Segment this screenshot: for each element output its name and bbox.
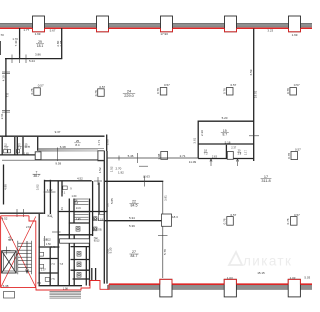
svg-text:2.61: 2.61 <box>0 113 4 119</box>
svg-text:18.3: 18.3 <box>172 215 178 219</box>
svg-text:0.78: 0.78 <box>223 218 227 224</box>
svg-text:0.57: 0.57 <box>38 84 44 88</box>
svg-text:18.1: 18.1 <box>37 44 44 48</box>
svg-text:0.57: 0.57 <box>295 148 301 152</box>
svg-text:0.78: 0.78 <box>156 88 160 94</box>
svg-text:0.78: 0.78 <box>94 90 98 96</box>
svg-text:КЦ: КЦ <box>48 214 53 218</box>
svg-text:3.08: 3.08 <box>106 139 110 145</box>
svg-text:4.98: 4.98 <box>3 184 7 190</box>
svg-text:0.78: 0.78 <box>286 218 290 224</box>
svg-text:7.0: 7.0 <box>6 93 10 98</box>
svg-text:0.57: 0.57 <box>294 213 300 217</box>
svg-text:3.23: 3.23 <box>267 28 273 32</box>
svg-text:1.82: 1.82 <box>47 188 53 192</box>
svg-text:5.39: 5.39 <box>129 224 135 228</box>
svg-text:ликатк: ликатк <box>243 254 292 269</box>
svg-text:19.01: 19.01 <box>254 90 258 98</box>
svg-text:7.3: 7.3 <box>51 263 55 266</box>
svg-text:5.24: 5.24 <box>29 59 35 63</box>
svg-text:1.69: 1.69 <box>35 32 41 36</box>
svg-text:0.57: 0.57 <box>99 85 105 89</box>
svg-text:5.34: 5.34 <box>129 216 135 220</box>
svg-text:0.78: 0.78 <box>30 88 34 94</box>
svg-text:9.37: 9.37 <box>55 130 61 134</box>
svg-text:0.78: 0.78 <box>223 88 227 94</box>
svg-text:0.8: 0.8 <box>75 202 79 205</box>
svg-text:5.13: 5.13 <box>107 248 110 253</box>
svg-text:17.90: 17.90 <box>160 32 168 36</box>
svg-text:1.52: 1.52 <box>110 166 114 172</box>
svg-text:1.70: 1.70 <box>0 33 4 37</box>
svg-text:10.6: 10.6 <box>8 238 14 242</box>
svg-text:8.4: 8.4 <box>75 143 80 147</box>
svg-text:1.98: 1.98 <box>63 288 68 291</box>
svg-text:1.03: 1.03 <box>290 276 296 280</box>
svg-text:0.78: 0.78 <box>287 153 291 159</box>
svg-text:1.17: 1.17 <box>243 149 247 155</box>
svg-text:1.89: 1.89 <box>43 239 48 242</box>
svg-text:6.38: 6.38 <box>60 145 66 149</box>
svg-text:1.77: 1.77 <box>23 28 29 32</box>
svg-text:5.46: 5.46 <box>128 154 134 158</box>
svg-text:4.10: 4.10 <box>2 75 6 81</box>
svg-text:2.63: 2.63 <box>212 155 218 159</box>
svg-text:5.67: 5.67 <box>50 28 56 32</box>
svg-text:15.15: 15.15 <box>257 271 265 275</box>
svg-text:5.78: 5.78 <box>163 249 167 255</box>
svg-text:9013: 9013 <box>94 240 100 243</box>
svg-text:14.9: 14.9 <box>76 207 81 210</box>
svg-text:21.6: 21.6 <box>25 145 31 149</box>
svg-text:5.38: 5.38 <box>3 284 9 288</box>
svg-text:5.18: 5.18 <box>225 140 231 144</box>
svg-text:3.08: 3.08 <box>157 153 161 159</box>
svg-text:0.78: 0.78 <box>286 88 290 94</box>
svg-text:5.85: 5.85 <box>110 198 114 204</box>
svg-text:7.2: 7.2 <box>204 151 208 155</box>
svg-text:1.65: 1.65 <box>24 151 30 155</box>
svg-text:2.71: 2.71 <box>180 154 186 158</box>
svg-text:1.19: 1.19 <box>98 219 103 222</box>
svg-text:6.59: 6.59 <box>249 69 253 75</box>
svg-text:2.6: 2.6 <box>4 145 8 149</box>
svg-text:2.8: 2.8 <box>238 151 242 155</box>
svg-text:2.39: 2.39 <box>200 130 204 136</box>
svg-text:0.57: 0.57 <box>164 83 170 87</box>
svg-text:БО: БО <box>37 282 41 285</box>
svg-text:1.52: 1.52 <box>98 167 102 173</box>
svg-text:3.61: 3.61 <box>192 137 196 143</box>
svg-text:2.98: 2.98 <box>59 40 63 46</box>
svg-text:229.0: 229.0 <box>124 94 134 98</box>
svg-text:7.8: 7.8 <box>60 263 64 266</box>
svg-text:2.63: 2.63 <box>26 225 32 229</box>
svg-text:0.57: 0.57 <box>231 213 237 217</box>
svg-text:2.1: 2.1 <box>18 145 22 149</box>
svg-text:ОБ: ОБ <box>98 229 102 232</box>
svg-text:0.57: 0.57 <box>231 83 237 87</box>
svg-text:3.02: 3.02 <box>36 184 40 190</box>
svg-text:8.7: 8.7 <box>222 133 227 137</box>
svg-text:311.8: 311.8 <box>261 179 270 183</box>
svg-text:1.60: 1.60 <box>72 195 77 198</box>
svg-text:1.57: 1.57 <box>41 269 46 272</box>
svg-text:1.03: 1.03 <box>227 276 233 280</box>
svg-text:5.20: 5.20 <box>222 116 228 120</box>
svg-text:2.46: 2.46 <box>51 246 56 249</box>
svg-text:1.69: 1.69 <box>292 33 298 37</box>
svg-text:1.92: 1.92 <box>118 171 124 175</box>
svg-text:4.52: 4.52 <box>2 217 8 221</box>
svg-text:7.5: 7.5 <box>51 278 55 281</box>
svg-text:11.09: 11.09 <box>189 160 197 164</box>
svg-text:1.0: 1.0 <box>106 203 109 207</box>
svg-text:1.71: 1.71 <box>97 139 101 145</box>
svg-text:3.86: 3.86 <box>35 52 41 56</box>
svg-text:7.40: 7.40 <box>14 40 18 46</box>
svg-text:84.7: 84.7 <box>131 254 138 258</box>
svg-text:1.45: 1.45 <box>76 218 81 221</box>
svg-text:0.57: 0.57 <box>294 83 300 87</box>
svg-text:4.52: 4.52 <box>77 177 83 181</box>
svg-text:9.59: 9.59 <box>55 161 61 165</box>
svg-text:(2.63: (2.63 <box>143 175 150 179</box>
svg-text:2.37: 2.37 <box>231 146 237 150</box>
svg-text:7.1: 7.1 <box>62 192 66 195</box>
svg-text:5.03: 5.03 <box>304 276 310 280</box>
svg-text:3.91: 3.91 <box>163 195 167 201</box>
svg-text:84.5: 84.5 <box>131 204 138 208</box>
svg-text:38.7: 38.7 <box>33 174 40 178</box>
